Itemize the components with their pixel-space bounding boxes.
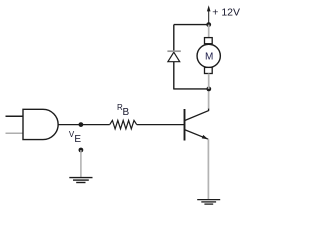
- wire diode branch vertical upper: [173, 25, 175, 51]
- svg-text:+ 12V: + 12V: [212, 7, 240, 19]
- wire resistor to base: [137, 124, 185, 126]
- resistor RB: [110, 120, 137, 128]
- ground (emitter): [197, 200, 220, 205]
- node collector junction: [206, 87, 211, 92]
- label RB: [117, 103, 130, 118]
- transistor Q1 base bar: [184, 109, 186, 141]
- label +12V: [212, 7, 240, 19]
- AND gate: [23, 109, 58, 139]
- node below VE: [79, 148, 84, 153]
- wire motor bottom: [208, 74, 210, 89]
- node VE: [79, 122, 84, 127]
- wire collector vertical: [208, 89, 210, 110]
- wire emitter to ground: [207, 139, 209, 199]
- transistor Q1 collector: [185, 109, 209, 121]
- wire node to ground: [80, 150, 82, 177]
- diode D1: [167, 51, 180, 62]
- node supply junction: [206, 22, 211, 27]
- svg-text:M: M: [205, 52, 213, 63]
- wire diode bottom horizontal: [174, 88, 209, 90]
- ground (input side): [69, 178, 92, 183]
- wire input B: [6, 132, 24, 134]
- motor M1: [197, 38, 220, 74]
- transistor Q1 emitter: [185, 130, 209, 140]
- svg-text:E: E: [74, 134, 81, 145]
- wire input A: [6, 115, 24, 117]
- wire diode branch vertical lower: [173, 62, 175, 90]
- svg-text:B: B: [123, 107, 130, 118]
- wire motor top: [208, 25, 210, 38]
- label VE: [69, 130, 82, 145]
- wire gate output to resistor: [58, 124, 109, 126]
- wire diode top horizontal: [174, 24, 209, 26]
- supply +12V arrow: [207, 5, 211, 24]
